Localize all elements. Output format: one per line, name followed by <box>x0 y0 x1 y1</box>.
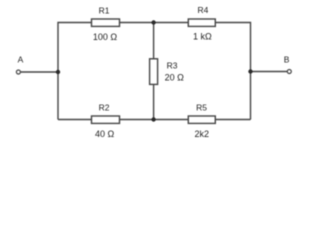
wire bottom rail mid segment <box>120 119 189 121</box>
svg-text:R5: R5 <box>196 103 207 113</box>
svg-text:B: B <box>284 54 290 64</box>
resistor R4 <box>188 19 215 26</box>
svg-text:R4: R4 <box>197 5 208 15</box>
svg-text:R2: R2 <box>99 102 110 112</box>
wire top rail mid segment <box>120 22 189 24</box>
svg-text:R3: R3 <box>167 60 178 70</box>
wire bottom rail right segment <box>216 119 251 121</box>
wire bottom rail left segment <box>58 119 92 121</box>
terminal B circle <box>287 70 291 74</box>
wire terminal B lead <box>251 71 288 73</box>
resistor R3 <box>150 59 158 85</box>
svg-text:40 Ω: 40 Ω <box>95 129 115 139</box>
terminal A circle <box>16 70 20 74</box>
svg-text:A: A <box>18 55 24 65</box>
wire middle branch upper <box>153 23 155 59</box>
node junction bottom of R3 <box>151 117 155 121</box>
node junction at B rail <box>248 69 252 73</box>
resistor R2 <box>92 116 120 123</box>
wire middle branch lower <box>153 84 155 119</box>
svg-text:20 Ω: 20 Ω <box>165 73 185 83</box>
svg-text:2k2: 2k2 <box>195 129 210 139</box>
node junction top of R3 <box>151 20 155 24</box>
svg-text:1 kΩ: 1 kΩ <box>193 31 212 41</box>
svg-text:R1: R1 <box>99 6 110 16</box>
svg-text:100 Ω: 100 Ω <box>93 32 118 42</box>
wire top rail right segment <box>216 23 251 120</box>
wire top rail left segment <box>58 23 92 120</box>
resistor R5 <box>188 116 215 123</box>
wire terminal A lead <box>21 71 59 73</box>
resistor R1 <box>92 19 120 26</box>
node junction at A rail <box>56 70 60 74</box>
